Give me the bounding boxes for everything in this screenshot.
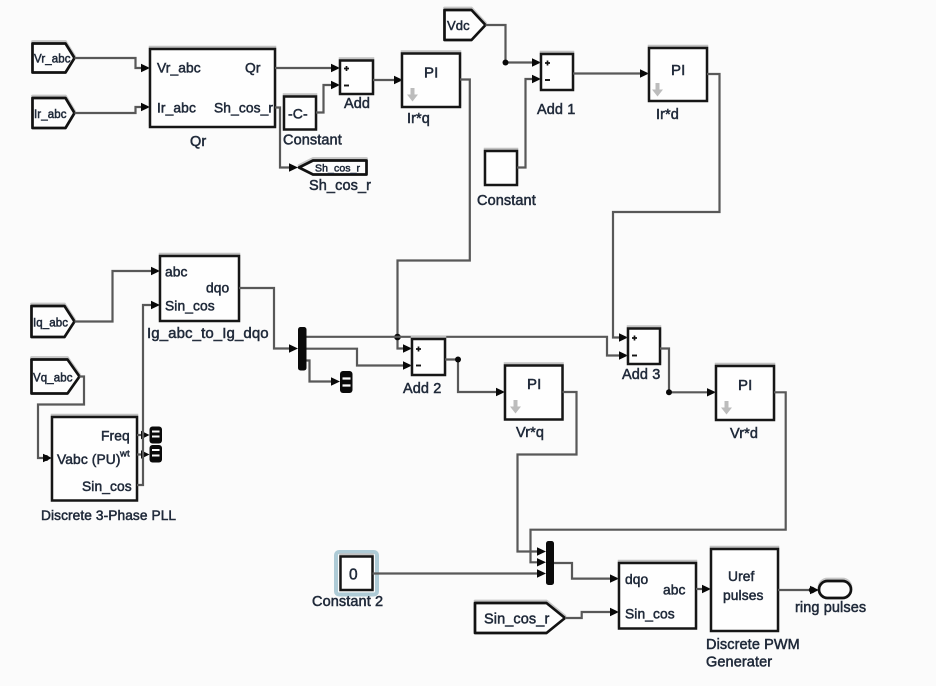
svg-text:Vabc (PU): Vabc (PU) — [57, 452, 121, 467]
wire PLL wt to terminator 2 — [137, 450, 150, 458]
wire Add 2 to PI Vr*q — [445, 357, 505, 397]
svg-text:pulses: pulses — [723, 588, 763, 603]
svg-text:dqo: dqo — [625, 572, 649, 587]
svg-text:wt: wt — [119, 449, 130, 460]
svg-text:Freq: Freq — [101, 429, 130, 444]
goto tag Sh_cos_r — [299, 161, 371, 195]
wire PLL Freq to terminator 1 — [137, 431, 150, 439]
input port Ir_abc — [33, 98, 75, 128]
mux — [546, 541, 554, 585]
PI controller Ir*d — [649, 48, 707, 123]
wire demux out3 to terminator — [307, 361, 341, 386]
wire Add 1 to PI Ir*d — [573, 69, 649, 77]
svg-text:Qr: Qr — [245, 61, 261, 76]
svg-text:PI: PI — [671, 62, 685, 79]
wire Vr_abc to Qr — [75, 58, 151, 72]
wire dqo block to PWM — [696, 585, 711, 593]
svg-text:Constant: Constant — [283, 133, 342, 149]
wire demux out1 to Add 3 — [307, 337, 629, 360]
svg-text:Add: Add — [344, 96, 370, 112]
subsystem Qr — [150, 49, 275, 150]
wire Vr*q to mux — [518, 392, 577, 556]
subsystem Ig_abc_to_Ig_dqo — [147, 256, 269, 342]
svg-text:Vq_abc: Vq_abc — [33, 373, 73, 385]
terminator 2 — [150, 445, 163, 463]
svg-text:Ir*d: Ir*d — [656, 107, 679, 123]
svg-text:abc: abc — [663, 583, 686, 598]
sum block Add 1 — [537, 54, 575, 118]
wire demux out2 to Add 2 — [307, 349, 413, 370]
output port ring pulses — [795, 581, 866, 616]
svg-text:Ir_abc: Ir_abc — [157, 101, 196, 116]
input port Vdc — [445, 10, 486, 40]
svg-text:Uref: Uref — [728, 569, 755, 584]
wire Constant to Add 1 — [517, 75, 541, 168]
svg-text:Ir*q: Ir*q — [407, 111, 430, 127]
svg-text:0: 0 — [349, 567, 358, 584]
wire Qr Sh_cos_r to goto tag — [275, 108, 298, 172]
svg-text:Vr*q: Vr*q — [516, 425, 544, 441]
sum block Add 3 — [622, 329, 660, 384]
wire Vdc to Add 1 — [486, 25, 542, 67]
svg-text:Discrete 3-Phase PLL: Discrete 3-Phase PLL — [41, 508, 176, 523]
svg-text:PI: PI — [424, 65, 438, 82]
svg-text:dqo: dqo — [206, 281, 230, 296]
svg-text:Sh_cos_r: Sh_cos_r — [309, 178, 371, 194]
constant block (empty) — [477, 151, 536, 209]
svg-text:Vr_abc: Vr_abc — [34, 54, 71, 66]
svg-text:Add 1: Add 1 — [537, 102, 575, 118]
subsystem Discrete PWM Generater — [706, 549, 800, 671]
svg-text:ring pulses: ring pulses — [795, 600, 866, 616]
svg-text:Sh_cos_r: Sh_cos_r — [315, 163, 361, 175]
svg-text:Generater: Generater — [706, 655, 772, 671]
wire PLL Sin_cos to Ig Sin_cos — [137, 301, 160, 485]
wire dqo to demux — [239, 288, 298, 353]
svg-text:abc: abc — [165, 265, 188, 280]
svg-text:Discrete PWM: Discrete PWM — [706, 637, 800, 653]
svg-text:Qr: Qr — [190, 134, 206, 150]
wire Vr*d to mux — [531, 392, 786, 566]
PI controller Vr*q — [505, 366, 563, 442]
wire Iq_abc to abc input — [75, 267, 161, 322]
from tag Sin_cos_r — [475, 603, 565, 633]
terminator 1 — [150, 427, 163, 444]
svg-text:Ig_abc_to_Ig_dqo: Ig_abc_to_Ig_dqo — [147, 325, 269, 342]
wire Qr to Add — [275, 64, 340, 72]
input port Vq_abc — [32, 360, 80, 394]
demux — [298, 327, 307, 371]
svg-text:Sh_cos_r: Sh_cos_r — [214, 101, 273, 116]
svg-text:Iq_abc: Iq_abc — [33, 318, 68, 330]
wire Ir*d to Add 3 — [613, 74, 720, 342]
wire Ir*q to Add 2 — [394, 80, 470, 353]
svg-text:Vr*d: Vr*d — [730, 426, 758, 442]
svg-text:Sin_cos_r: Sin_cos_r — [484, 612, 549, 628]
svg-text:Sin_cos: Sin_cos — [625, 607, 675, 622]
input port Vr_abc — [33, 44, 75, 73]
wire -C- to Add — [316, 81, 340, 113]
PI controller Ir*q — [402, 54, 460, 128]
wire Add to PI Ir*q — [373, 76, 403, 84]
wire Add 3 to PI Vr*d — [660, 349, 716, 397]
wire mux to dqo block — [554, 563, 619, 583]
svg-text:Constant: Constant — [477, 193, 536, 209]
wire PWM to ring pulses — [778, 586, 819, 594]
svg-text:-C-: -C- — [288, 106, 308, 122]
sum block Add — [340, 61, 373, 113]
svg-text:Add 3: Add 3 — [622, 367, 660, 383]
svg-text:PI: PI — [527, 376, 541, 393]
svg-text:Vr_abc: Vr_abc — [157, 61, 201, 76]
input port Iq_abc — [32, 306, 75, 337]
constant block -C- — [283, 97, 342, 149]
sum block Add 2 — [403, 339, 445, 397]
subsystem dqo to abc — [619, 563, 696, 629]
svg-text:Add 2: Add 2 — [403, 381, 441, 397]
wire Ir_abc to Qr — [75, 103, 151, 113]
svg-text:Sin_cos: Sin_cos — [165, 299, 215, 314]
svg-text:Vdc: Vdc — [447, 18, 470, 33]
wire Sin_cos_r to dqo block — [565, 608, 619, 618]
wire Constant 2 to mux — [373, 569, 547, 577]
svg-text:Ir_abc: Ir_abc — [34, 109, 67, 121]
subsystem Discrete 3-Phase PLL — [41, 417, 176, 523]
svg-text:PI: PI — [738, 377, 752, 394]
constant block 0 (Constant 2, selected) — [312, 552, 383, 610]
wire Vq_abc to PLL input — [38, 377, 84, 463]
terminator small block (near demux) — [340, 371, 353, 393]
PI controller Vr*d — [716, 366, 774, 442]
svg-text:Constant 2: Constant 2 — [312, 594, 383, 610]
svg-text:Sin_cos: Sin_cos — [82, 479, 132, 494]
